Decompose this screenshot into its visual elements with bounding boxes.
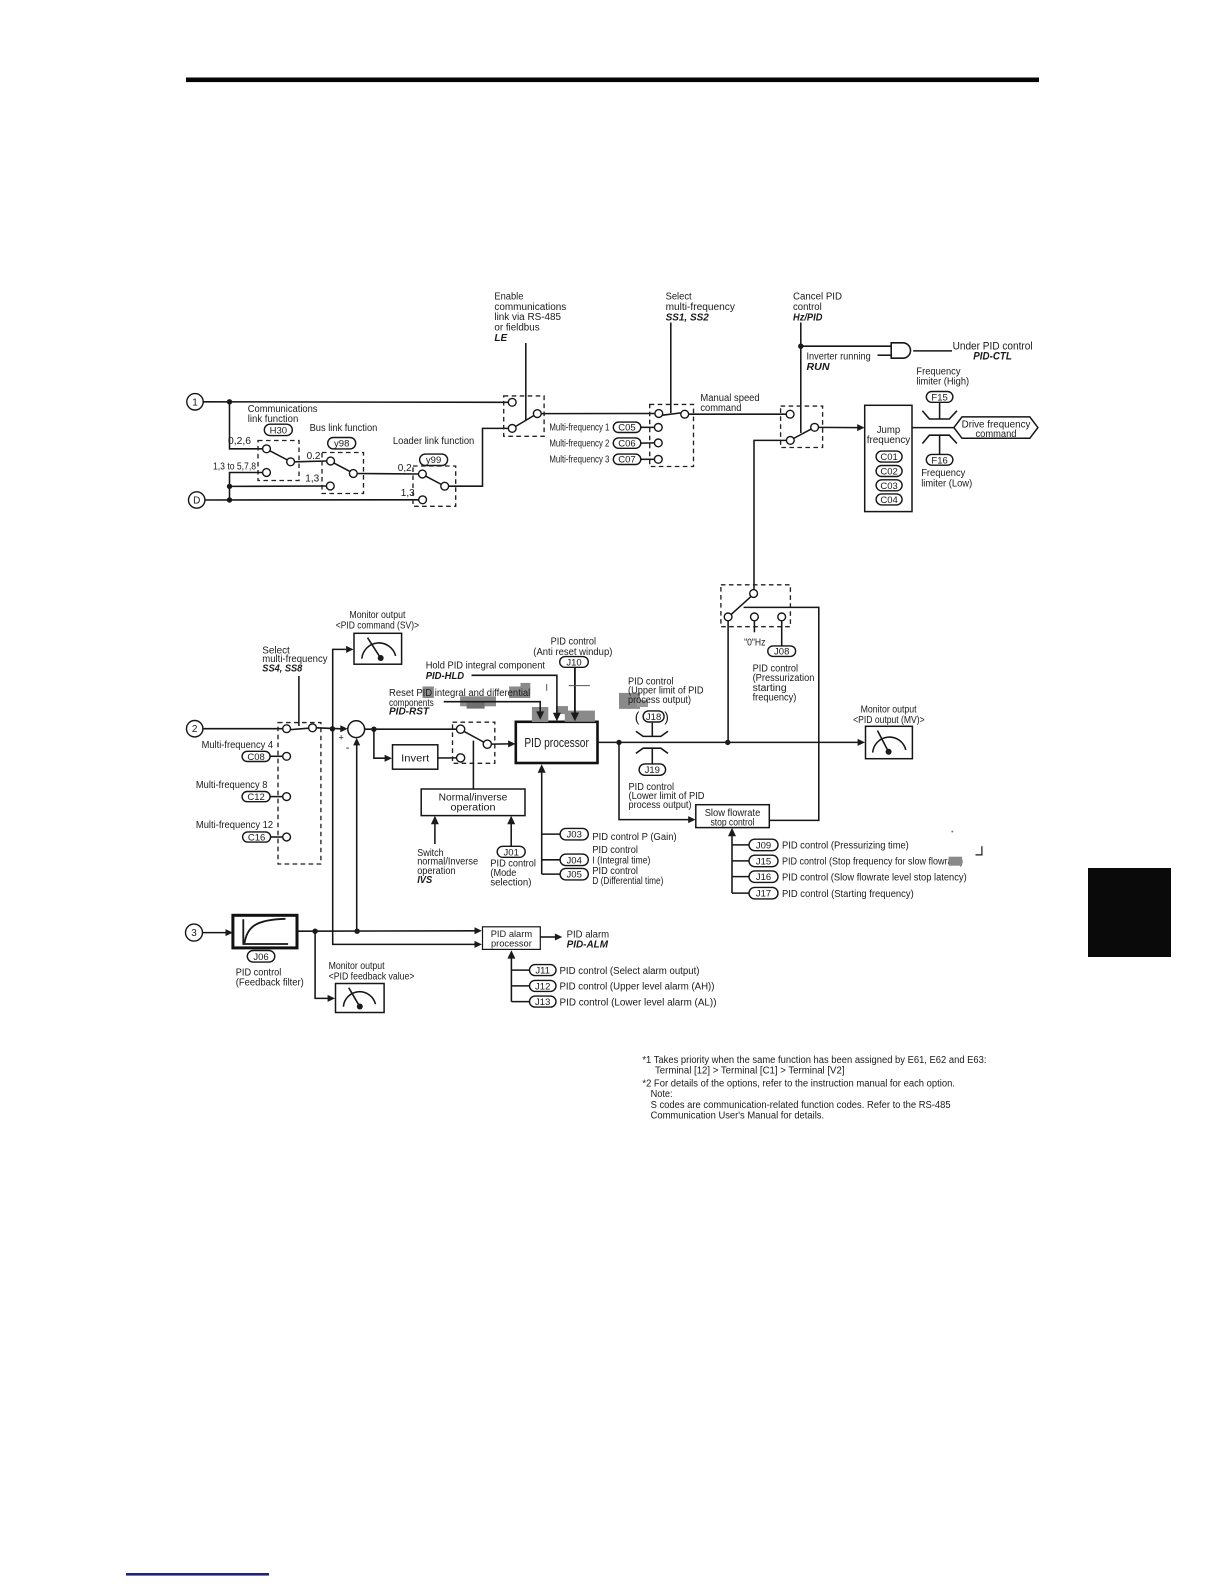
wire NI control line <box>472 741 474 789</box>
function code J19 <box>639 764 666 776</box>
function code y99 <box>420 454 448 466</box>
wire y98 common to y99 input <box>357 473 418 476</box>
svg-text:1: 1 <box>192 397 198 408</box>
svg-text:IVS: IVS <box>417 875 432 886</box>
wire C07 to contact <box>641 458 655 460</box>
wire feedback meter tap <box>315 931 328 998</box>
svg-text:J01: J01 <box>504 847 519 858</box>
svg-text:Terminal [12] > Terminal [C1]: Terminal [12] > Terminal [C1] > Terminal… <box>655 1066 845 1077</box>
normal/inverse operation box <box>421 789 525 816</box>
svg-text:C12: C12 <box>247 792 264 803</box>
switch LE (enable communications link) <box>504 396 544 436</box>
function code C08 <box>242 751 270 763</box>
svg-text:J09: J09 <box>756 841 771 852</box>
svg-text:C05: C05 <box>618 423 635 434</box>
wire pressurization blade to slow flowrate control <box>744 607 819 820</box>
wire C08 to contact <box>270 755 283 757</box>
svg-text:(: ( <box>635 709 640 725</box>
svg-text:D: D <box>193 496 200 507</box>
wire J18 to upper clamp <box>651 723 653 737</box>
svg-text:Communication User's Manual fo: Communication User's Manual for details. <box>651 1111 825 1122</box>
switch y99 (loader link function) <box>413 466 456 506</box>
function code J01 <box>497 846 525 858</box>
svg-text:I (Integral time): I (Integral time) <box>592 855 650 866</box>
function code J13 <box>530 996 557 1008</box>
svg-text:PID control (Starting frequenc: PID control (Starting frequency) <box>782 889 914 900</box>
function code J17 <box>749 887 778 899</box>
svg-text:<PID output (MV)>: <PID output (MV)> <box>853 715 925 726</box>
wire branch J04 <box>542 859 560 861</box>
wire Hz/PID common to jump frequency <box>819 426 859 428</box>
wire terminal 2 to SS4 switch <box>203 728 283 730</box>
wire LE control line <box>525 343 527 421</box>
svg-text:Bus link function: Bus link function <box>310 423 378 434</box>
svg-text:J16: J16 <box>756 872 771 883</box>
svg-text:Multi-frequency 4: Multi-frequency 4 <box>202 740 274 751</box>
svg-text:Hz/PID: Hz/PID <box>793 312 822 323</box>
function code J08 <box>768 646 796 658</box>
footnotes <box>642 1055 986 1122</box>
arrowhead into summing point <box>340 725 347 732</box>
wire J10 to PID processor <box>574 667 576 713</box>
wire branch J15 <box>732 860 749 862</box>
svg-text:C02: C02 <box>880 467 897 478</box>
function code y98 <box>328 438 356 450</box>
svg-text:J17: J17 <box>756 889 771 900</box>
wire J08 left contact down to PID output line <box>727 621 729 743</box>
wire C05 to contact <box>641 426 655 428</box>
drive frequency command hexagon <box>954 417 1038 440</box>
svg-text:command: command <box>976 429 1017 440</box>
summing junction <box>339 721 365 754</box>
svg-text:J12: J12 <box>535 981 550 992</box>
node junction 1,3 wire <box>227 484 232 489</box>
arrowhead up into slow flowrate box <box>728 828 736 836</box>
wire summing junction to normal/inverse switch <box>365 728 457 730</box>
svg-text:Multi-frequency 3: Multi-frequency 3 <box>549 455 609 466</box>
svg-text:C07: C07 <box>618 455 635 466</box>
svg-text:2: 2 <box>192 724 198 735</box>
wire jump frequency to drive frequency command <box>912 427 954 429</box>
arrowhead into invert box <box>385 755 392 762</box>
terminal D <box>189 492 205 508</box>
svg-text:PID-RST: PID-RST <box>389 706 430 717</box>
wire SS common to Hz/PID switch <box>689 413 787 415</box>
function code J05 <box>560 868 588 880</box>
node junction invert tap <box>371 727 376 732</box>
svg-text:Monitor output: Monitor output <box>329 961 385 972</box>
scan smudge artifacts <box>423 683 649 722</box>
terminal 1 <box>187 394 203 410</box>
wire SV tap line <box>333 649 475 944</box>
svg-text:limiter (Low): limiter (Low) <box>921 478 972 489</box>
function code C02 <box>876 466 902 478</box>
arrowhead up into alarm processor <box>507 950 515 958</box>
wire to AND gate input 1 <box>801 345 891 347</box>
wire y99 common up to LE lower input <box>449 428 509 486</box>
svg-text:J18: J18 <box>646 712 661 723</box>
wire NI common to PID processor <box>491 743 509 745</box>
svg-text:PID control (Upper level alarm: PID control (Upper level alarm (AH)) <box>560 982 715 993</box>
node junction on Hz/PID line <box>798 344 803 349</box>
arrowhead into slow flowrate box <box>688 816 695 823</box>
function code H30 <box>264 424 292 436</box>
svg-text:H30: H30 <box>270 425 287 436</box>
arrowhead feedback up <box>353 738 360 746</box>
svg-text:PID control (Lower level alarm: PID control (Lower level alarm (AL)) <box>560 997 717 1008</box>
svg-text:limiter (High): limiter (High) <box>916 376 969 387</box>
lower limit clamp symbol <box>636 748 668 753</box>
svg-text:processor: processor <box>491 938 532 948</box>
svg-text:1,3 to 5,7,8: 1,3 to 5,7,8 <box>213 462 256 473</box>
bottom blue line <box>126 1573 269 1576</box>
jump frequency box <box>865 405 912 511</box>
svg-text:J15: J15 <box>756 857 771 868</box>
wire PID-HLD to PID processor <box>472 675 557 714</box>
svg-text:J11: J11 <box>535 966 550 977</box>
wire SS4/SS8 control line <box>298 676 300 726</box>
switch y98 (bus link function) <box>322 453 364 494</box>
svg-text:PID control (Stop frequency fo: PID control (Stop frequency for slow flo… <box>782 857 963 868</box>
wire branch J12 <box>511 985 529 987</box>
svg-text:PID control P (Gain): PID control P (Gain) <box>592 832 676 843</box>
arrowhead into SV meter <box>346 646 353 653</box>
svg-text:frequency): frequency) <box>753 693 797 704</box>
wire terminal1 to LE switch <box>203 401 508 404</box>
arrowhead into alarm processor input2 <box>475 941 482 948</box>
svg-text:y99: y99 <box>426 455 441 466</box>
node junction summing feedback tap <box>354 929 359 934</box>
wire IVS arrow line <box>434 821 436 844</box>
invert box <box>393 745 438 769</box>
svg-text:PID-ALM: PID-ALM <box>567 940 609 951</box>
wire branch J05 <box>542 873 560 875</box>
svg-text:y98: y98 <box>334 439 349 450</box>
svg-text:<PID command (SV)>: <PID command (SV)> <box>336 620 419 631</box>
arrowhead PID alarm output <box>555 934 562 941</box>
wire SS4 common to summing point <box>316 728 341 729</box>
arrowhead PID-HLD <box>553 713 561 722</box>
wire PID-RST to PID processor <box>444 702 541 713</box>
svg-text:command: command <box>700 403 741 414</box>
svg-text:<PID feedback value>: <PID feedback value> <box>329 971 415 982</box>
arrowhead into PID processor <box>508 740 515 747</box>
svg-text:Monitor output: Monitor output <box>861 704 917 715</box>
svg-text:PID control (Pressurizing time: PID control (Pressurizing time) <box>782 841 909 852</box>
function code F15 <box>926 392 953 404</box>
svg-text:Multi-frequency 12: Multi-frequency 12 <box>196 820 274 831</box>
monitor meter SV <box>354 633 402 664</box>
node junction SV tap <box>330 726 335 731</box>
function code C12 <box>242 792 270 804</box>
corner reference mark <box>976 846 982 855</box>
svg-text:0,2,6: 0,2,6 <box>228 436 251 447</box>
svg-text:J03: J03 <box>567 830 582 841</box>
svg-text:process output): process output) <box>629 800 692 811</box>
wire D to y99 lower input <box>205 499 419 501</box>
svg-text:PID-HLD: PID-HLD <box>426 671 464 682</box>
PID alarm processor box <box>483 927 541 950</box>
wire terminal 3 to feedback filter <box>203 932 227 934</box>
svg-text:"0"Hz: "0"Hz <box>744 637 765 648</box>
wire lower limiter to F16 <box>939 435 941 454</box>
svg-text:multi-frequency: multi-frequency <box>666 302 735 313</box>
arrowhead into feedback filter <box>226 929 233 936</box>
wire junction down to H30 input <box>230 402 263 449</box>
black section tab <box>1088 868 1171 957</box>
switch H30 (communications link function) <box>258 441 299 481</box>
svg-text:Multi-frequency 8: Multi-frequency 8 <box>196 780 268 791</box>
svg-text:Multi-frequency 1: Multi-frequency 1 <box>549 423 609 434</box>
wire branch J17 <box>732 892 749 894</box>
arrowhead IVS into box <box>431 816 439 824</box>
function code J04 <box>560 854 588 866</box>
function code C16 <box>243 832 271 844</box>
svg-text:SS4, SS8: SS4, SS8 <box>262 664 302 675</box>
arrowhead J10 <box>571 713 579 722</box>
monitor meter feedback <box>336 984 385 1013</box>
wire F15 to upper limiter <box>939 402 941 419</box>
function code J16 <box>749 871 778 883</box>
svg-text:*2 For details of the options,: *2 For details of the options, refer to … <box>642 1078 955 1089</box>
wire branch J13 <box>511 1001 529 1003</box>
svg-text:PID processor: PID processor <box>524 736 589 750</box>
wire PID processor output to MV meter <box>598 741 859 743</box>
AND gate (Under PID control) <box>891 343 910 358</box>
slow flowrate stop control box <box>696 805 770 829</box>
switch SS4/SS8 (select multi-frequency) <box>278 723 321 864</box>
node junction slow flowrate tap <box>616 740 621 745</box>
switch Hz/PID (cancel PID control) <box>781 406 823 447</box>
artifact tick near RST line <box>546 684 548 691</box>
svg-text:D (Differential time): D (Differential time) <box>592 876 663 887</box>
frequency limiter low clamp symbol <box>922 435 957 443</box>
svg-text:S codes are communication-rela: S codes are communication-related functi… <box>651 1100 951 1111</box>
switch SS1/SS2 (select multi-frequency) <box>650 404 694 466</box>
svg-text:Communications: Communications <box>248 404 318 415</box>
function code C06 <box>613 438 641 450</box>
top rule <box>186 78 1039 83</box>
svg-text:J06: J06 <box>253 952 268 963</box>
wire LE common to SS1/SS2 switch <box>541 413 655 415</box>
stray dot artifact <box>951 831 953 833</box>
svg-text:process output): process output) <box>628 695 691 706</box>
svg-text:F16: F16 <box>931 455 947 466</box>
svg-text:F15: F15 <box>931 392 947 403</box>
svg-text:or fieldbus: or fieldbus <box>494 322 539 333</box>
PID processor box <box>516 722 598 763</box>
wire AND gate output <box>913 350 952 352</box>
function code J06 <box>247 951 274 963</box>
svg-text:C08: C08 <box>247 752 264 763</box>
wire J11 group to alarm processor <box>510 956 512 1002</box>
upper limit clamp symbol <box>636 731 668 736</box>
node junction on D wire <box>227 497 232 502</box>
svg-text:J13: J13 <box>535 997 550 1008</box>
svg-text:(Feedback filter): (Feedback filter) <box>236 977 304 988</box>
svg-text:J05: J05 <box>567 870 582 881</box>
svg-text:SS1, SS2: SS1, SS2 <box>666 312 710 323</box>
svg-text:C03: C03 <box>880 481 897 492</box>
function code J12 <box>530 980 557 992</box>
arrowhead into alarm processor input1 <box>475 927 482 934</box>
wire lower clamp to J19 <box>651 748 653 764</box>
arrowhead into jump frequency <box>857 424 864 431</box>
svg-text:0.2: 0.2 <box>307 451 321 462</box>
function code J10 <box>560 657 589 669</box>
wire "0"Hz stub <box>753 621 755 633</box>
svg-text:*1 Takes priority when the sam: *1 Takes priority when the same function… <box>642 1055 986 1066</box>
svg-text:RUN: RUN <box>807 362 831 373</box>
wire J01 arrow line <box>510 821 512 847</box>
function code J18 with parentheses <box>635 709 669 725</box>
svg-text:J10: J10 <box>566 657 581 668</box>
wire C06 to contact <box>641 442 655 444</box>
svg-text:LE: LE <box>494 333 507 344</box>
svg-text:3: 3 <box>191 928 197 939</box>
svg-text:J04: J04 <box>567 855 582 866</box>
function code J09 <box>749 839 778 851</box>
svg-text:J19: J19 <box>645 765 660 776</box>
svg-text:C01: C01 <box>880 452 897 463</box>
function code C07 <box>613 454 641 466</box>
wire C16 to contact <box>271 836 283 838</box>
function code J11 <box>530 965 557 977</box>
svg-text:operation: operation <box>451 802 496 813</box>
wire feedback into summing junction from below <box>356 745 358 931</box>
wire branch J09 <box>732 844 749 846</box>
svg-text:PID control (Slow flowrate lev: PID control (Slow flowrate level stop la… <box>782 872 967 883</box>
wire H30 lower input left and down to D line <box>230 473 263 501</box>
arrowhead into feedback meter <box>328 995 335 1002</box>
svg-text:stop control: stop control <box>710 818 754 829</box>
svg-text:+: + <box>339 732 344 742</box>
wire J09 group to slow flowrate box <box>731 833 733 893</box>
wire branch J03 <box>542 833 560 835</box>
svg-text:Invert: Invert <box>401 752 429 764</box>
svg-text:0,2: 0,2 <box>398 463 412 474</box>
wire feedback filter output to alarm processor <box>297 930 475 932</box>
function code C04 <box>876 494 902 506</box>
wire invert to NI switch lower input <box>438 757 457 759</box>
svg-text:1,3: 1,3 <box>305 474 319 485</box>
function code C03 <box>876 480 902 492</box>
wire slow flowrate tap <box>619 742 689 819</box>
switch J08 (pressurization starting frequency selector) <box>721 585 791 627</box>
wire to y98 lower input <box>230 485 327 487</box>
svg-text:-: - <box>346 742 350 754</box>
artifact tick near J10 line <box>569 685 590 687</box>
svg-text:PID control (Select alarm outp: PID control (Select alarm output) <box>560 966 700 977</box>
function code C01 <box>876 451 902 463</box>
node junction feedback meter tap <box>312 929 317 934</box>
smudge on flowrate word <box>949 857 962 866</box>
wire J08 contact to oval <box>781 621 783 646</box>
wire Hz/PID control line <box>800 323 802 434</box>
wire RUN to AND gate input 2 <box>878 354 892 356</box>
function code J03 <box>560 828 588 840</box>
terminal 3 <box>186 924 203 941</box>
svg-text:control: control <box>793 302 822 313</box>
svg-text:C06: C06 <box>618 439 635 450</box>
wire Hz/PID lower input down to pressurization switch <box>754 440 786 589</box>
node junction pressurization tap <box>725 740 730 745</box>
wire alarm processor output <box>540 936 555 938</box>
arrowhead up into PID processor <box>538 764 546 772</box>
svg-text:selection): selection) <box>490 877 531 888</box>
svg-text:C16: C16 <box>248 832 265 843</box>
svg-text:Multi-frequency 2: Multi-frequency 2 <box>549 438 609 449</box>
wire H30 common to y98 input <box>295 460 327 463</box>
svg-text:C04: C04 <box>880 495 897 506</box>
monitor meter MV <box>866 726 913 758</box>
switch normal/inverse <box>453 722 495 763</box>
function code C05 <box>613 422 641 434</box>
terminal 2 <box>187 721 203 737</box>
svg-text:Loader link function: Loader link function <box>393 436 474 447</box>
wire C12 to contact <box>270 796 283 798</box>
wire invert tap <box>374 729 386 758</box>
svg-text:J08: J08 <box>774 647 789 658</box>
function code F16 <box>926 454 953 466</box>
node junction on terminal1 wire <box>227 399 232 404</box>
wire branch J11 <box>511 969 529 971</box>
wire PID gain group to PID processor <box>541 770 543 874</box>
function code J15 <box>749 855 778 867</box>
svg-text:Inverter running: Inverter running <box>807 351 871 362</box>
svg-text:Note:: Note: <box>651 1089 673 1100</box>
arrowhead into MV meter <box>858 739 865 746</box>
svg-text:): ) <box>664 709 669 725</box>
feedback filter box with curve <box>233 915 297 948</box>
wire SS1/SS2 control line <box>670 323 672 414</box>
frequency limiter high clamp symbol <box>922 411 957 419</box>
svg-text:PID-CTL: PID-CTL <box>973 351 1012 363</box>
wire branch J16 <box>732 876 749 878</box>
svg-text:frequency: frequency <box>867 435 911 446</box>
arrowhead J01 into box <box>507 816 515 824</box>
arrowhead PID-RST <box>536 711 544 719</box>
